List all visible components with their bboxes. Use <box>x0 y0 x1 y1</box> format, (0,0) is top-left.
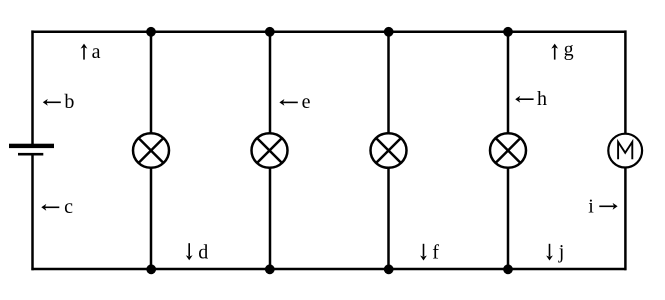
current arrow f (down) <box>420 244 427 261</box>
svg-text:d: d <box>198 242 208 264</box>
wire: branch 1 lower segment <box>150 167 153 270</box>
wire: right upper segment (motor top lead) <box>624 30 627 135</box>
svg-text:h: h <box>537 88 547 110</box>
junction dot bottom 3 <box>384 264 394 274</box>
svg-text:c: c <box>64 196 73 218</box>
wire: branch 4 upper segment <box>507 30 510 134</box>
lamp 2 (circle with X) <box>252 133 288 168</box>
junction dot bottom 4 <box>503 264 513 274</box>
svg-text:e: e <box>302 91 311 113</box>
svg-text:f: f <box>432 242 439 264</box>
junction dot top 3 <box>384 27 394 37</box>
junction dot bottom 2 <box>265 264 275 274</box>
wire: bottom rail <box>31 268 626 271</box>
junction dot bottom 1 <box>146 264 156 274</box>
current arrow a (up) <box>81 44 88 60</box>
wire: branch 1 upper segment <box>150 30 153 134</box>
lamp 1 (circle with X) <box>133 133 169 168</box>
wire: branch 4 lower segment <box>507 167 510 270</box>
battery B1 positive plate (long thick bar) <box>9 144 54 148</box>
current arrow d (down) <box>186 243 193 260</box>
junction dot top 2 <box>265 27 275 37</box>
battery B1 negative plate (short thin bar) <box>18 153 43 156</box>
motor M (circle with letter M) <box>608 134 642 168</box>
current arrow h (left) <box>515 96 533 103</box>
svg-text:i: i <box>588 195 594 217</box>
current arrow c (left) <box>41 204 59 211</box>
lamp 3 (circle with X) <box>371 133 407 168</box>
current arrow j (down) <box>546 244 553 261</box>
current arrow i (right) <box>599 203 617 210</box>
current arrow g (up) <box>551 44 558 60</box>
lamp 4 (circle with X) <box>490 133 526 168</box>
junction dot top 1 <box>146 27 156 37</box>
current arrow e (left) <box>279 99 297 106</box>
wire: branch 2 lower segment <box>269 167 272 270</box>
wire: branch 3 lower segment <box>387 167 390 270</box>
current arrow b (left) <box>43 99 61 106</box>
svg-text:a: a <box>92 41 101 63</box>
svg-text:j: j <box>558 241 565 263</box>
junction dot top 4 <box>503 27 513 37</box>
wire: right lower segment (motor bottom lead) <box>624 167 627 271</box>
wire: left lower segment (battery bottom lead) <box>31 155 34 270</box>
wire: top rail <box>31 30 626 33</box>
svg-text:g: g <box>564 39 574 61</box>
wire: left upper segment (battery top lead) <box>31 30 34 144</box>
svg-text:b: b <box>64 91 74 113</box>
wire: branch 3 upper segment <box>387 30 390 134</box>
wire: branch 2 upper segment <box>269 30 272 134</box>
